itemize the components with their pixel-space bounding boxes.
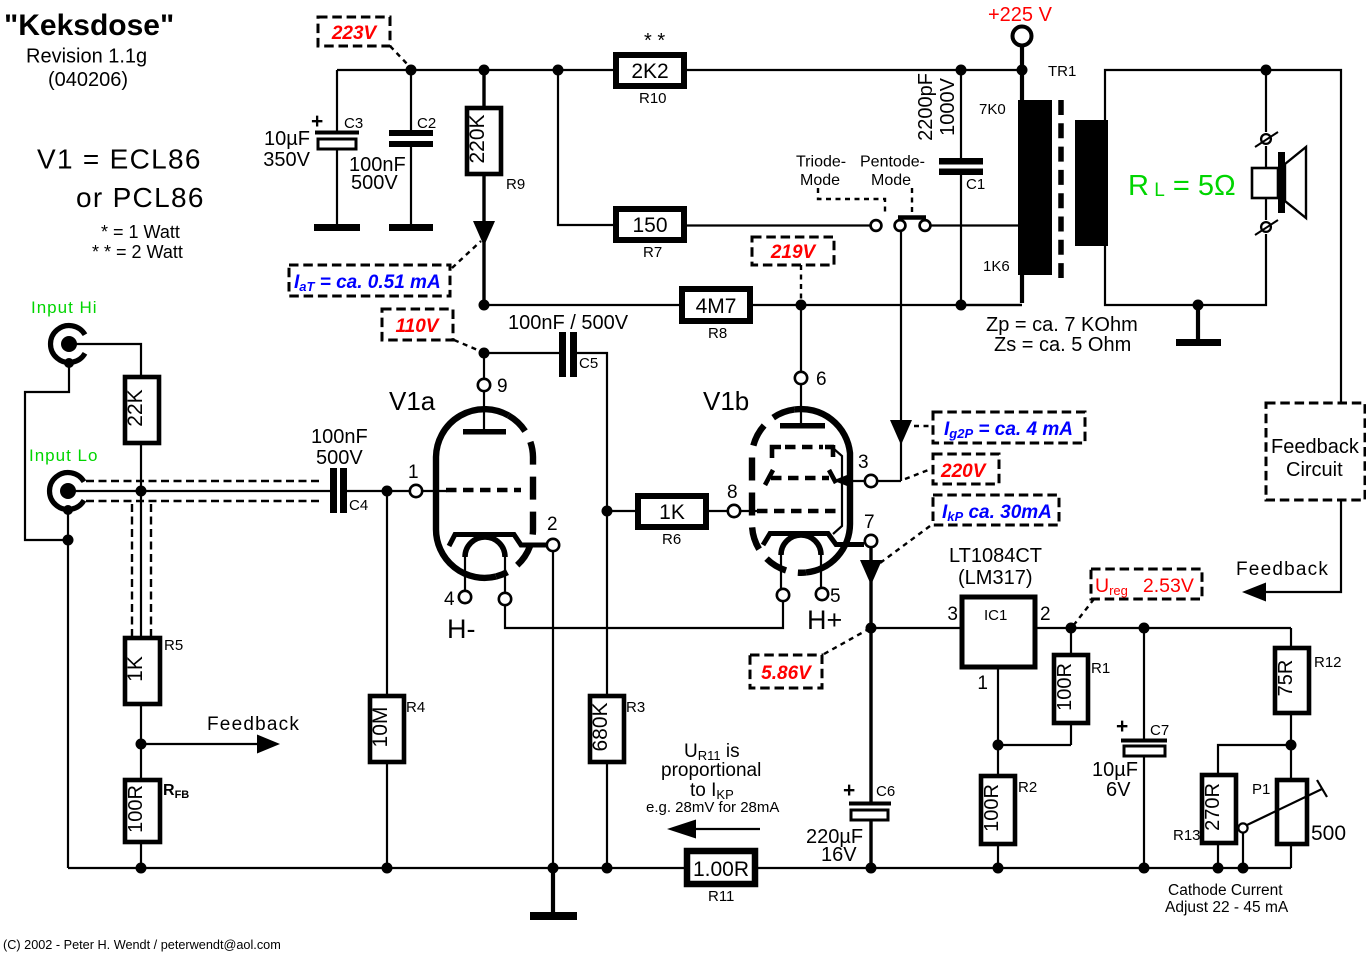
wire heater series V1a to V1b (505, 601, 783, 628)
svg-text:220K: 220K (466, 114, 489, 163)
switch closed bar (898, 215, 926, 220)
wire dashed pointer (824, 630, 867, 654)
annotation Ureg (1091, 569, 1202, 599)
resistor R3 680K (590, 696, 624, 762)
pin 8 (728, 505, 740, 517)
svg-text:R4: R4 (406, 699, 425, 716)
svg-text:1000V: 1000V (937, 77, 959, 135)
capacitor C7 10uF 6V (1143, 628, 1145, 739)
svg-text:R11: R11 (708, 888, 734, 905)
grid g3 V1b with hooks (772, 447, 781, 458)
pin 3 (865, 475, 877, 487)
capacitor C5 100nF/500V (559, 332, 566, 377)
svg-text:1K: 1K (124, 656, 147, 682)
svg-text:1K: 1K (659, 501, 685, 524)
svg-text:* * = 2 Watt: * * = 2 Watt (92, 242, 183, 262)
node C7 bottom (1139, 863, 1150, 874)
wire C5 to R3/R6 (577, 353, 607, 696)
svg-text:100R: 100R (981, 784, 1003, 832)
connector RCA Input Hi (51, 326, 85, 369)
wire pin7 cathode drop (869, 547, 872, 628)
svg-text:(040206): (040206) (48, 69, 128, 91)
wire dashed pointer (1073, 599, 1094, 626)
wire g3 internal to cathode (833, 449, 842, 534)
node 22K bottom junction (136, 486, 147, 497)
svg-text:C6: C6 (876, 783, 895, 800)
wire primary bottom lead (1020, 273, 1024, 303)
svg-text:5: 5 (830, 586, 841, 607)
svg-text:TR1: TR1 (1048, 63, 1076, 80)
svg-text:2: 2 (1040, 604, 1051, 625)
wire pin2 drop to rail (552, 551, 554, 868)
svg-text:+: + (843, 779, 855, 802)
node Lo ground junction (63, 535, 74, 546)
node pin2/R1 junction (1066, 623, 1077, 634)
svg-text:6: 6 (816, 369, 827, 390)
resistor 22K (125, 377, 159, 443)
svg-text:H-: H- (447, 614, 476, 644)
pin 2 (547, 539, 559, 551)
node R9 top junction (479, 65, 490, 76)
svg-text:e.g. 28mV for 28mA: e.g. 28mV for 28mA (646, 799, 779, 816)
svg-text:or PCL86: or PCL86 (76, 182, 205, 213)
node pin1/R1 junction (993, 740, 1004, 751)
wire arrow Ig2P (890, 420, 912, 445)
node secondary ground junction (1193, 300, 1204, 311)
svg-text:219V: 219V (770, 242, 817, 263)
envelope V1a dashed part (496, 416, 533, 577)
svg-text:22K: 22K (124, 389, 147, 426)
wire dashed pointer 223V (390, 46, 410, 67)
node R12/R13/P1 junction (1286, 740, 1297, 751)
wire grid V1a node (y=353) (479, 348, 490, 359)
wire arrow UR11 (694, 828, 760, 830)
resistor R12 75R (1290, 628, 1292, 648)
wire dashed pointer triode mode (818, 188, 885, 216)
svg-text:10M: 10M (369, 707, 392, 748)
svg-text:1.00R: 1.00R (693, 858, 749, 881)
resistor R7 150 (616, 209, 684, 240)
svg-text:1: 1 (977, 673, 988, 694)
svg-text:R1: R1 (1091, 660, 1110, 677)
resistor R2 100R (981, 776, 1015, 844)
svg-text:+225 V: +225 V (988, 4, 1053, 26)
svg-text:R10: R10 (639, 90, 667, 107)
svg-text:Revision 1.1g: Revision 1.1g (26, 46, 147, 68)
resistor R1 100R (1070, 628, 1072, 655)
svg-text:C5: C5 (579, 355, 598, 372)
wire R8 to transformer bottom (750, 304, 1022, 306)
svg-text:R L = 5Ω: R L = 5Ω (1128, 170, 1236, 202)
node R4 top junction (382, 486, 393, 497)
resistor R8 4M7 (682, 289, 750, 321)
wire feedback arrow left (141, 743, 259, 745)
annotation Ig2P (933, 412, 1085, 443)
svg-text:10µF: 10µF (1092, 759, 1138, 781)
node R13 bottom (1213, 863, 1224, 874)
node RFB bottom (136, 863, 147, 874)
svg-text:223V: 223V (331, 23, 378, 44)
svg-text:Mode: Mode (800, 172, 840, 189)
svg-text:5.86V: 5.86V (761, 663, 812, 684)
wire feedback circuit output (1264, 500, 1341, 592)
svg-text:R8: R8 (708, 325, 727, 342)
pin 1 (410, 485, 422, 497)
svg-text:2K2: 2K2 (631, 60, 668, 83)
svg-text:680K: 680K (589, 702, 612, 751)
grid g2 V1b (765, 470, 773, 485)
svg-text:350V: 350V (263, 149, 310, 171)
svg-text:6V: 6V (1106, 779, 1131, 801)
anode plate V1a (463, 429, 506, 435)
wire shield dashed bottom (86, 500, 321, 502)
bottom rail (68, 867, 687, 869)
wire 22K to R5 (140, 491, 142, 638)
wire pin6 drop (800, 305, 802, 372)
node C1 top junction (956, 65, 967, 76)
svg-text:"Keksdose": "Keksdose" (4, 9, 174, 42)
wire R7 to switch (684, 224, 870, 226)
wire R7 branch (558, 70, 616, 225)
svg-text:Mode: Mode (871, 172, 911, 189)
node C1 bottom junction (956, 300, 967, 311)
node H+ cathode junction (866, 623, 877, 634)
svg-text:7: 7 (864, 512, 875, 533)
wire IC1 pin1 (997, 667, 999, 776)
svg-text:Adjust 22 - 45 mA: Adjust 22 - 45 mA (1165, 899, 1289, 916)
ground main (551, 868, 555, 913)
transformer primary winding (1018, 100, 1052, 275)
wire C4 to pin1 (347, 490, 410, 492)
svg-text:R6: R6 (662, 531, 681, 548)
svg-text:100nF / 500V: 100nF / 500V (508, 312, 629, 334)
svg-text:V1a: V1a (389, 386, 436, 416)
node R2 bottom (993, 863, 1004, 874)
svg-text:* *: * * (644, 30, 665, 52)
annotation 223V (318, 17, 390, 46)
svg-text:Feedback: Feedback (1271, 436, 1360, 458)
envelope V1a solid part (436, 409, 509, 578)
node C7 junction (1139, 623, 1150, 634)
node speaker top junction (1261, 65, 1272, 76)
node R3 bottom (602, 863, 613, 874)
feedback circuit box (1266, 403, 1365, 500)
wire junction to R13 (1218, 745, 1291, 775)
svg-text:Feedback: Feedback (207, 714, 300, 735)
node 223V junction (406, 65, 417, 76)
wire dashed pointer (905, 469, 931, 479)
svg-text:270R: 270R (1202, 783, 1224, 831)
annotation 220V (933, 454, 999, 484)
svg-text:Input Hi: Input Hi (31, 298, 98, 317)
svg-text:75R: 75R (1275, 660, 1297, 697)
svg-text:IC1: IC1 (984, 607, 1007, 624)
wire speaker to bottom (1265, 198, 1267, 220)
svg-text:* = 1 Watt: * = 1 Watt (101, 222, 180, 242)
svg-text:100R: 100R (1054, 663, 1076, 711)
svg-text:10µF: 10µF (264, 128, 310, 150)
pin 7 (865, 535, 877, 547)
node R7 top junction (553, 65, 564, 76)
envelope V1b solid part (795, 409, 851, 572)
svg-text:150: 150 (632, 214, 667, 237)
svg-text:110V: 110V (396, 316, 440, 337)
transformer secondary winding (1075, 120, 1108, 246)
wire dashed pointer pentode mode (911, 188, 913, 214)
svg-text:8: 8 (727, 482, 738, 503)
node feedback tap (136, 739, 147, 750)
svg-text:H+: H+ (807, 605, 842, 635)
svg-text:16V: 16V (821, 844, 857, 866)
svg-text:Input Lo: Input Lo (29, 446, 98, 465)
annotation 110V (382, 309, 453, 340)
grid V1a dashed (446, 488, 521, 493)
transformer core dashed (1058, 100, 1064, 278)
wire anode V1a node (y=305) (479, 300, 490, 311)
svg-text:C1: C1 (966, 176, 985, 193)
resistor RFB 100R (125, 780, 160, 842)
capacitor C1 2200pF 1000V (960, 70, 962, 159)
svg-text:100R: 100R (125, 785, 147, 833)
wire shield dashed verticals (131, 504, 133, 638)
svg-text:R2: R2 (1018, 779, 1037, 796)
wire dashed pointer (800, 265, 802, 303)
grid g1 V1b (757, 509, 840, 514)
connector jack bottom (1261, 222, 1271, 232)
wire Hi center to 22K (72, 344, 141, 377)
svg-text:C2: C2 (417, 115, 436, 132)
annotation IaT current (289, 265, 450, 296)
pin heater right V1a (499, 593, 511, 605)
svg-text:proportional: proportional (661, 760, 761, 781)
svg-text:+: + (1116, 715, 1128, 738)
svg-text:LT1084CT: LT1084CT (949, 545, 1042, 567)
svg-text:100nF: 100nF (311, 426, 368, 448)
top B+ rail y=70 (337, 69, 616, 71)
annotation IkP (933, 495, 1059, 525)
svg-text:C3: C3 (344, 115, 363, 132)
svg-text:500V: 500V (316, 447, 363, 469)
svg-text:(C) 2002 - Peter H. Wendt / p: (C) 2002 - Peter H. Wendt / peterwendt@a… (3, 938, 281, 952)
svg-text:R9: R9 (506, 176, 525, 193)
resistor R13 270R (1202, 775, 1236, 843)
svg-text:P1: P1 (1252, 781, 1270, 798)
wire primary top lead (1020, 70, 1024, 102)
resistor R10 2K2 (616, 55, 684, 86)
svg-text:+: + (311, 110, 323, 133)
pin 9 (478, 379, 490, 391)
wire dashed pointer (876, 526, 930, 566)
wire g2 feed down from switch (900, 230, 902, 481)
svg-text:500V: 500V (351, 172, 398, 194)
svg-text:C7: C7 (1150, 722, 1169, 739)
wiper P1 (1247, 789, 1322, 825)
resistor R5 1K (125, 638, 160, 704)
wire to IC1 pin3 (871, 627, 962, 629)
pin 6 (795, 372, 807, 384)
capacitor C6 220uF 16V (869, 628, 872, 802)
svg-text:R12: R12 (1314, 654, 1342, 671)
wire Lo center conductor (71, 490, 330, 492)
svg-text:Feedback: Feedback (1236, 559, 1329, 580)
resistor R6 1K (638, 496, 706, 527)
svg-text:Zs = ca. 5 Ohm: Zs = ca. 5 Ohm (994, 334, 1131, 356)
svg-text:R5: R5 (164, 637, 183, 654)
heater V1b arc (781, 535, 821, 555)
svg-text:220V: 220V (940, 461, 987, 482)
pin 5 (816, 588, 828, 600)
svg-text:Cathode Current: Cathode Current (1168, 882, 1283, 899)
wire dashed pointer (454, 340, 480, 351)
capacitor C2 (100nF 500V) (410, 70, 412, 131)
svg-text:IaT = ca. 0.51 mA: IaT = ca. 0.51 mA (294, 272, 441, 294)
envelope V1b dashed part (752, 410, 806, 573)
wire dashed pointer (914, 425, 931, 427)
cathode V1a (449, 535, 547, 547)
svg-text:3: 3 (947, 604, 958, 625)
speaker RL (1252, 168, 1278, 198)
capacitor C4 100nF 500V (330, 468, 337, 513)
svg-text:Zp = ca. 7 KOhm: Zp = ca. 7 KOhm (986, 314, 1138, 336)
node pin6 branch (796, 300, 807, 311)
cathode V1b (763, 534, 864, 546)
svg-text:4M7: 4M7 (696, 295, 737, 318)
svg-text:Circuit: Circuit (1286, 459, 1343, 481)
connector jack top (1261, 134, 1271, 144)
wire arrow IaT on R9 branch (473, 221, 495, 246)
wire arrow IkP (860, 560, 882, 585)
wire R4 branch (386, 491, 388, 696)
annotation 5.86V (750, 655, 822, 688)
svg-text:1K6: 1K6 (983, 258, 1010, 275)
wire shield dashed top (86, 480, 321, 482)
resistor R9 220K (482, 70, 485, 108)
wire secondary top lead (1105, 70, 1341, 403)
svg-text:(LM317): (LM317) (958, 567, 1032, 589)
svg-text:R7: R7 (643, 244, 662, 261)
capacitor C3 (electrolytic 10uF 350V) (336, 70, 338, 131)
svg-text:2: 2 (547, 514, 558, 535)
switch contacts (871, 220, 882, 231)
resistor R4 10M (370, 696, 404, 762)
wire IC1 pin2 out (1035, 627, 1291, 629)
svg-text:R3: R3 (626, 699, 645, 716)
svg-text:500: 500 (1311, 822, 1346, 845)
potentiometer P1 500 (1277, 780, 1307, 844)
heater V1a arc (465, 537, 505, 557)
wire Hi ground path (25, 363, 69, 540)
svg-text:R13: R13 (1173, 827, 1201, 844)
resistor R11 1.00R (687, 851, 755, 884)
node pin2 bottom (548, 863, 559, 874)
wire dashed pointer (452, 241, 481, 268)
wire secondary bottom lead (1105, 234, 1266, 305)
anode plate V1b (780, 423, 825, 429)
wire switch to transformer tap (930, 224, 1018, 226)
node +225V junction (1017, 65, 1028, 76)
svg-text:2200pF: 2200pF (915, 73, 937, 141)
node R4 bottom (382, 863, 393, 874)
svg-text:4: 4 (444, 589, 455, 610)
wire speaker branch (1265, 70, 1267, 132)
node C6 bottom (866, 863, 877, 874)
svg-text:3: 3 (858, 452, 869, 473)
ground secondary (1196, 305, 1200, 340)
annotation 219V (752, 237, 834, 265)
svg-text:Triode-: Triode- (796, 154, 846, 171)
svg-text:V1 = ECL86: V1 = ECL86 (37, 144, 202, 175)
svg-text:7K0: 7K0 (979, 101, 1006, 118)
wire Lo ground drop to rail (67, 510, 69, 868)
svg-text:C4: C4 (349, 497, 368, 514)
svg-text:1: 1 (408, 462, 419, 483)
node wiper bottom (1238, 863, 1249, 874)
pin heater left V1b (777, 589, 789, 601)
wire pin3 with arrow into g2 (833, 475, 847, 486)
svg-text:V1b: V1b (703, 386, 749, 416)
svg-text:9: 9 (497, 376, 508, 397)
pin 4 (459, 591, 471, 603)
connector RCA Input Lo (50, 473, 84, 515)
svg-text:Pentode-: Pentode- (860, 154, 925, 171)
